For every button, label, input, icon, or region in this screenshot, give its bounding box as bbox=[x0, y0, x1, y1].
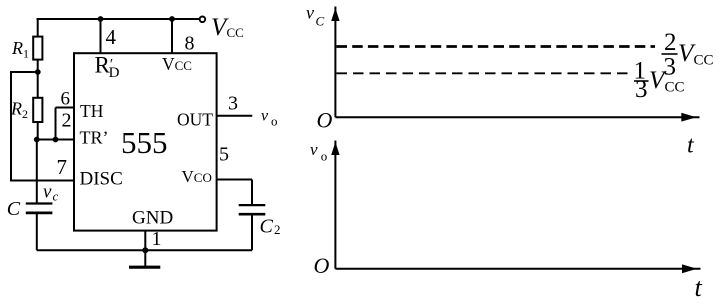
svg-text:6: 6 bbox=[61, 89, 71, 110]
capacitor C2 top plate bbox=[239, 204, 266, 206]
svg-text:O: O bbox=[314, 253, 330, 278]
svg-text:C: C bbox=[7, 198, 21, 220]
svg-text:OUT: OUT bbox=[177, 110, 213, 130]
svg-text:2: 2 bbox=[664, 29, 677, 56]
ground symbol bbox=[144, 250, 146, 266]
axis t horizontal (bottom graph) bbox=[335, 268, 700, 270]
svg-text:C: C bbox=[260, 216, 274, 238]
capacitor C2 bottom plate bbox=[239, 213, 266, 216]
svg-text:2: 2 bbox=[22, 107, 28, 121]
svg-text:2: 2 bbox=[274, 222, 281, 237]
svg-text:GND: GND bbox=[132, 208, 173, 229]
svg-text:o: o bbox=[271, 114, 278, 129]
svg-text:8: 8 bbox=[185, 33, 195, 55]
svg-text:CC: CC bbox=[665, 80, 685, 96]
wire pin 3 output stub bbox=[217, 115, 253, 117]
svg-text:o: o bbox=[321, 149, 328, 164]
svg-text:3: 3 bbox=[228, 93, 238, 115]
node junction R1/R2/DISC bbox=[35, 69, 41, 75]
threshold line 1/3 VCC dashed bbox=[337, 72, 634, 74]
svg-text:t: t bbox=[695, 273, 703, 302]
svg-text:7: 7 bbox=[57, 155, 68, 179]
wire TH stub to pin 6 bbox=[56, 107, 75, 109]
resistor R1 bbox=[33, 37, 42, 60]
svg-text:R: R bbox=[11, 38, 23, 58]
wire R2 bottom to TR node bbox=[37, 122, 39, 140]
wire junction to DISC pin 7 bbox=[11, 72, 74, 181]
svg-text:v: v bbox=[261, 108, 269, 125]
svg-text:555: 555 bbox=[121, 125, 168, 160]
wire TH riser vertical bbox=[55, 108, 57, 140]
wire R1 bottom to R2 top bbox=[37, 60, 39, 98]
wire capacitor C2 to bottom rail bbox=[251, 214, 253, 250]
capacitor C top plate bbox=[26, 202, 53, 204]
wire bottom ground rail bbox=[37, 249, 252, 251]
svg-text:CC: CC bbox=[694, 53, 714, 69]
IC 555 box U1 bbox=[74, 53, 217, 230]
svg-text:CC: CC bbox=[227, 25, 244, 40]
node junction TR/R2 bbox=[34, 137, 40, 143]
wire pin 8 bbox=[171, 19, 173, 53]
node junction pin4/rail bbox=[98, 16, 104, 22]
svg-text:1: 1 bbox=[152, 228, 162, 250]
svg-text:TR’: TR’ bbox=[80, 128, 109, 148]
wire capacitor C to bottom rail bbox=[36, 213, 38, 250]
wire TR horizontal to pin 2 bbox=[37, 139, 74, 141]
resistor R2 bbox=[33, 98, 42, 122]
svg-text:3: 3 bbox=[635, 76, 648, 103]
svg-text:TH: TH bbox=[80, 101, 104, 121]
wire rail to R1 top bbox=[37, 19, 39, 37]
svg-text:3: 3 bbox=[664, 54, 677, 81]
svg-text:DISC: DISC bbox=[80, 169, 123, 190]
svg-text:1: 1 bbox=[23, 47, 29, 61]
svg-text:c: c bbox=[53, 189, 59, 204]
axis t horizontal (top graph) bbox=[335, 116, 699, 118]
axis vC vertical (top graph) bbox=[334, 7, 336, 118]
svg-text:v: v bbox=[310, 140, 318, 159]
wire pin 4 bbox=[100, 19, 102, 53]
svg-text:v: v bbox=[43, 182, 52, 203]
svg-text:v: v bbox=[306, 3, 314, 23]
wire top supply rail bbox=[37, 18, 201, 20]
svg-text:4: 4 bbox=[106, 25, 117, 49]
threshold line 2/3 VCC dashed bbox=[337, 45, 656, 48]
axis vo vertical (bottom graph) bbox=[334, 141, 336, 269]
capacitor C bottom plate bbox=[26, 212, 53, 215]
wire pin 5 stub bbox=[217, 179, 253, 181]
svg-text:5: 5 bbox=[219, 144, 229, 166]
node junction pin1/rail bbox=[142, 247, 148, 253]
wire pin 5 down to capacitor C2 bbox=[251, 180, 253, 206]
node junction TH riser bbox=[53, 137, 59, 143]
svg-text:2: 2 bbox=[62, 110, 72, 132]
svg-text:R: R bbox=[10, 99, 22, 119]
node junction pin8/rail bbox=[169, 16, 175, 22]
svg-text:C: C bbox=[316, 14, 325, 29]
svg-text:VCO: VCO bbox=[182, 167, 212, 186]
wire pin 1 GND bbox=[144, 231, 146, 251]
wire TR node down to capacitor C bbox=[36, 140, 38, 204]
svg-text:O: O bbox=[317, 108, 333, 133]
terminal VCC open circle bbox=[200, 17, 206, 23]
